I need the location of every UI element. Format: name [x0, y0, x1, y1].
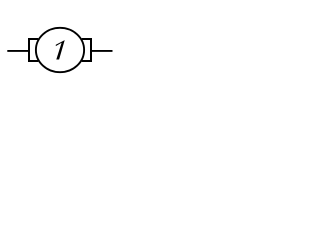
lamp-in-holder schematic symbol [0, 0, 120, 100]
socket contact left [29, 39, 38, 61]
socket contact right [82, 39, 91, 61]
value label 1 [56, 40, 65, 59]
lamp body circle [36, 28, 84, 72]
wire left lead [7, 50, 29, 52]
wire right lead [91, 50, 113, 52]
